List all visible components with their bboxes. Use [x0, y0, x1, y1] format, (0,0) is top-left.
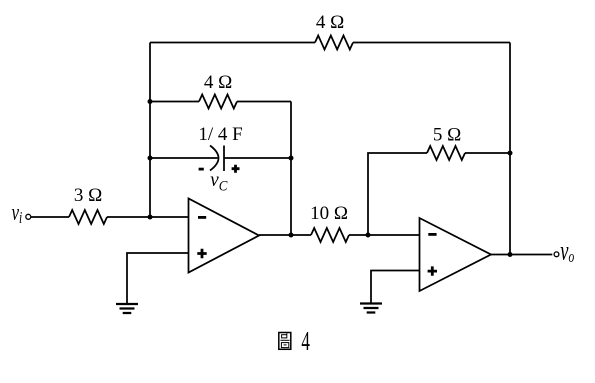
op-amp U1	[189, 199, 260, 273]
svg-text:10 Ω: 10 Ω	[310, 203, 348, 224]
wire U1 output to U2 input	[259, 234, 420, 236]
ground G2	[360, 304, 382, 313]
terminal vo open circle	[554, 252, 559, 257]
svg-text:4 Ω: 4 Ω	[204, 72, 232, 93]
svg-text:3 Ω: 3 Ω	[74, 185, 102, 206]
capacitor plus sign	[232, 165, 240, 173]
resistor R_f2 4ohm top	[315, 36, 353, 50]
wire left vertical from top net to input node	[149, 43, 151, 218]
resistor R4 5ohm	[427, 146, 465, 160]
wire U1 noninverting input to ground	[127, 253, 189, 304]
wire right vertical x=510	[509, 43, 511, 255]
wire 5ohm feedback branch	[368, 153, 510, 235]
op-amp U1 minus input sign	[198, 216, 206, 219]
terminal vi open circle	[26, 214, 31, 219]
svg-text:5 Ω: 5 Ω	[433, 125, 461, 146]
capacitor C1 1/4F curved plate	[210, 146, 219, 171]
wire capacitor branch	[150, 157, 291, 159]
svg-text:1/ 4 F: 1/ 4 F	[198, 124, 242, 145]
wire 4ohm feedback branch	[150, 101, 291, 103]
svg-text:vC: vC	[210, 168, 228, 193]
wire top feedback net	[150, 42, 510, 44]
capacitor minus sign	[199, 168, 204, 171]
capacitor C1 straight plate	[223, 146, 225, 172]
junction node dots	[148, 99, 153, 104]
op-amp U2	[420, 218, 492, 291]
op-amp U2 minus input sign	[428, 233, 436, 236]
svg-text:4 Ω: 4 Ω	[316, 12, 344, 33]
wire mid vertical x=291	[290, 102, 292, 236]
op-amp U2 plus input sign	[428, 266, 437, 275]
op-amp U1 plus input sign	[197, 249, 206, 258]
wire input	[31, 216, 189, 218]
wire U2 output to vo terminal	[491, 254, 552, 256]
svg-text:4: 4	[301, 326, 310, 356]
resistor R_f1 4ohm	[199, 95, 237, 109]
svg-text:vi: vi	[12, 198, 23, 228]
caption glyph tu (figure)	[279, 333, 291, 350]
resistor R1 3ohm	[69, 210, 107, 224]
svg-text:vo: vo	[560, 236, 574, 267]
ground G1	[116, 304, 138, 313]
wire U2 noninverting input to ground	[371, 271, 420, 303]
resistor R3 10ohm	[311, 228, 349, 242]
